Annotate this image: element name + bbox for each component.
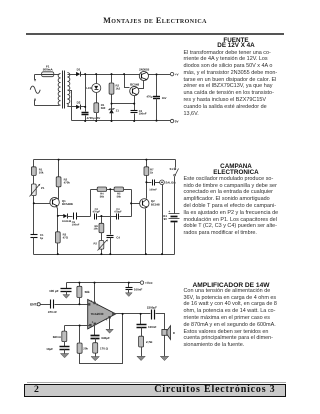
left rail bottom (33, 238, 35, 255)
wire C5 to double-T bottom (77, 216, 91, 218)
capacitor 100uF rail (66, 283, 68, 289)
double-T top wire right (124, 189, 132, 191)
double-T left vertical (90, 190, 92, 217)
capacitor C2 (131, 111, 138, 113)
wire C1 to op-amp (55, 304, 88, 306)
wire C3 to bottom rail (156, 99, 158, 121)
top rail (67, 282, 141, 284)
footer bar (24, 384, 286, 397)
svg-text:BC548B: BC548B (62, 202, 73, 206)
left rail top (33, 160, 35, 167)
svg-text:+Vcc: +Vcc (145, 281, 153, 285)
wire 170 ohm to ground (95, 354, 97, 357)
battery B1 9V (169, 214, 180, 222)
resistor R2 (109, 83, 114, 94)
capacitor 100nF decoupling (128, 283, 130, 288)
wire 10uF to ground (64, 350, 66, 354)
capacitor C3 (117, 214, 119, 220)
wire R6 to P2 (101, 233, 103, 241)
wire C4 to bottom rail (110, 238, 112, 255)
wire pin5 to rail (94, 283, 96, 303)
double-T right vertical (131, 190, 133, 217)
resistor R2 (56, 177, 61, 187)
junction dots schematic 1 (84, 73, 157, 122)
wire C7 to jack (155, 182, 160, 184)
wire D1 to C5 (68, 216, 73, 218)
double-T top wire middle (107, 189, 115, 191)
svg-text:D1: D1 (77, 67, 81, 71)
capacitor 640uF (91, 336, 100, 339)
svg-text:10μF: 10μF (46, 347, 53, 351)
zobel branch (140, 314, 142, 325)
wire secondary bottom tap (68, 106, 77, 108)
zener Z1 (109, 108, 115, 113)
wire Q2 emitter (145, 209, 147, 255)
footer shadow line (27, 382, 286, 383)
svg-text:10k: 10k (39, 170, 44, 174)
resistor 2.7 ohm (139, 336, 144, 347)
svg-text:470pF: 470pF (93, 211, 101, 214)
svg-text:10k: 10k (93, 228, 98, 231)
wire to Q2 base (132, 203, 140, 205)
wire Q2 collector from rail (125, 75, 130, 88)
wire input to C1 (41, 304, 51, 306)
svg-text:D2: D2 (77, 101, 81, 105)
left rail middle (33, 196, 35, 235)
resistor 680 ohm (64, 326, 66, 332)
ground pin4 (109, 318, 111, 330)
double-T bottom wire right (120, 216, 132, 218)
resistor R1 (31, 167, 36, 176)
capacitor C1 4700uF (82, 113, 89, 115)
text block 3 title (181, 282, 281, 289)
svg-text:TDA2030: TDA2030 (91, 312, 104, 316)
terminal 0V (170, 119, 173, 122)
capacitor C2 (95, 214, 97, 220)
svg-text:47Ω: 47Ω (63, 235, 69, 239)
transistor Q1 BC548B (50, 198, 59, 207)
svg-text:470pF: 470pF (114, 211, 122, 214)
text block 1 body (184, 50, 281, 118)
potentiometer P2 (98, 239, 109, 250)
svg-text:470k: 470k (64, 180, 71, 184)
wire to C7 (147, 182, 152, 184)
wire 680 to 10uF (64, 342, 66, 347)
svg-text:100nF: 100nF (148, 325, 157, 329)
svg-text:BC548: BC548 (151, 202, 160, 206)
output wire (116, 313, 151, 315)
svg-text:640μF: 640μF (101, 336, 110, 340)
wire zener junction to Q2 (112, 103, 135, 105)
transistor Q2 BC548 (140, 199, 149, 208)
wire R2 to zener (111, 95, 113, 109)
terminal +V (170, 72, 173, 75)
svg-text:9V: 9V (164, 217, 168, 221)
transformer secondary winding (67, 73, 69, 107)
svg-text:C4: C4 (116, 235, 120, 239)
wire LED column (96, 75, 98, 84)
svg-text:2N3055: 2N3055 (139, 67, 150, 71)
svg-text:100nF: 100nF (139, 113, 147, 116)
svg-text:680 Ω: 680 Ω (53, 335, 62, 339)
junction dots schematic 2 (33, 159, 163, 256)
wire secondary top tap (68, 74, 77, 76)
potentiometer P1 (30, 184, 41, 197)
text block 2 body (184, 176, 281, 237)
svg-text:100nF: 100nF (72, 224, 80, 227)
svg-text:1N4148: 1N4148 (62, 220, 72, 223)
diode D1 1N4148 (63, 214, 67, 219)
capacitor C7 (153, 180, 155, 186)
svg-text:P1: P1 (41, 186, 45, 190)
svg-text:S1: S1 (169, 167, 173, 171)
resistor 170 ohm (93, 343, 98, 353)
svg-text:16V: 16V (162, 97, 167, 100)
capacitor C1 (31, 235, 38, 238)
top rail (34, 159, 176, 161)
fuse F1 (42, 72, 54, 77)
text block 3 body (184, 288, 281, 349)
svg-text:1μ: 1μ (40, 236, 44, 240)
transformer T1 primary winding (58, 73, 60, 105)
svg-text:1k: 1k (150, 170, 154, 174)
wire 640uF branch (94, 325, 96, 336)
AC source input arrows (34, 75, 36, 106)
wire top rail left (81, 74, 140, 76)
wire fuse to transformer primary (54, 74, 60, 76)
svg-text:4: 4 (106, 318, 108, 321)
wire AC top to fuse (35, 74, 42, 76)
svg-text:BC548: BC548 (130, 82, 139, 86)
wire Q1 base (34, 203, 51, 205)
svg-text:56k: 56k (100, 195, 105, 198)
AC sine symbol (30, 86, 40, 93)
resistor R3 (55, 232, 60, 243)
resistor 56k (79, 283, 81, 287)
svg-text:ENT.: ENT. (30, 303, 37, 307)
wire R1 to P1 (33, 176, 35, 185)
capacitor 100nF zobel (137, 325, 147, 328)
diode D2 (76, 105, 80, 110)
svg-text:P2: P2 (93, 241, 97, 245)
wire R7 to C7 junction (146, 176, 148, 183)
resistor R5 (114, 187, 123, 191)
svg-text:Z1: Z1 (116, 109, 120, 113)
bottom rail (34, 254, 175, 256)
wire Q2 emitter to C2 (134, 96, 136, 111)
wire speaker to ground (164, 336, 166, 357)
wire D1 branch (58, 215, 64, 217)
header rule (26, 33, 284, 34)
wire 20k to inverting input (79, 326, 81, 343)
svg-text:20k: 20k (83, 346, 88, 350)
text block 2 title (181, 164, 291, 175)
wire AC bottom to primary (35, 105, 60, 107)
op-amp TDA2030 (88, 300, 116, 329)
wire R3 to bottom rail (57, 243, 59, 255)
capacitor C4 (107, 236, 114, 238)
bottom rail (72, 120, 171, 122)
wire jack to bottom rail (162, 185, 164, 255)
svg-text:56k: 56k (117, 195, 122, 198)
output jack SALIDA (160, 180, 165, 185)
wire LED to R1 (96, 93, 98, 103)
capacitor 2200uF (152, 310, 155, 320)
inverting input wire (65, 325, 91, 327)
wire R7 column (146, 160, 148, 167)
transistor Q2 BC548 (130, 87, 139, 96)
svg-text:470 nF: 470 nF (48, 310, 57, 314)
svg-text:R: R (173, 332, 175, 335)
svg-text:170 Ω: 170 Ω (100, 346, 109, 350)
wire to zobel resistor (141, 328, 143, 337)
svg-text:56k: 56k (85, 290, 90, 294)
middle branch C4 (110, 190, 112, 235)
wire rectifier join vertical (85, 75, 87, 112)
svg-text:1k2: 1k2 (116, 87, 121, 91)
diode D1 (76, 72, 80, 77)
wire C2 to bottom rail (134, 114, 136, 121)
capacitor C1 470nF (51, 300, 54, 309)
wire R2 column (58, 160, 60, 177)
resistor R1 (94, 103, 99, 113)
feedback wire from output (80, 314, 123, 364)
capacitor C3 output (153, 97, 160, 99)
wire R1 to bottom rail (96, 113, 98, 121)
resistor R6 (99, 223, 104, 232)
svg-text:470μ: 470μ (146, 96, 152, 99)
junction dots schematic 3 (78, 282, 141, 327)
wire P2 to bottom rail (101, 250, 103, 255)
svg-text:500mA: 500mA (43, 67, 54, 71)
ground below 100uF (66, 292, 68, 295)
wire Q1 emitter down (57, 207, 58, 232)
footer page number (34, 384, 39, 395)
wire R6 branch (101, 217, 103, 224)
text block 1 title (181, 38, 291, 49)
wire C1 to bottom rail (85, 116, 87, 121)
svg-text:+V: +V (175, 72, 179, 76)
wire output cap column (156, 75, 158, 97)
wire zobel to ground (141, 347, 143, 357)
svg-text:LED: LED (86, 86, 92, 90)
wire Q2 to Q1 base (139, 81, 144, 89)
footer book title (140, 384, 276, 395)
wire Q2 collector (146, 183, 148, 199)
double-T top wire left (91, 189, 98, 191)
header title (25, 16, 285, 25)
transformer core (62, 71, 64, 109)
resistor 20k feedback (77, 343, 82, 353)
svg-text:2200μF: 2200μF (147, 305, 157, 309)
wire R2 to Q1 collector (58, 187, 59, 199)
resistor R4 (97, 187, 106, 191)
svg-text:2,7Ω: 2,7Ω (146, 340, 153, 344)
wire R2 column top (111, 75, 113, 83)
svg-text:100 μF: 100 μF (49, 289, 59, 293)
resistor R7 (144, 167, 149, 176)
wire secondary center tap (70, 91, 72, 121)
wire 640uF to 170 ohm (95, 339, 97, 343)
speaker (162, 326, 171, 340)
wire top rail right (output) (149, 74, 171, 76)
wire zener to bottom rail (111, 113, 113, 121)
transistor Q1 2N3055 (139, 71, 148, 80)
capacitor C5 (74, 213, 77, 220)
wire D2 to junction (81, 106, 86, 108)
switch S1 (174, 160, 179, 214)
capacitor 10uF (60, 347, 70, 350)
wire battery to bottom rail (174, 223, 176, 255)
svg-text:4700μ 25V: 4700μ 25V (87, 116, 101, 120)
svg-text:100nF: 100nF (149, 188, 157, 191)
terminal +Vcc (140, 281, 143, 284)
svg-text:100nF: 100nF (134, 287, 143, 291)
svg-text:0V: 0V (175, 119, 179, 123)
LED (92, 84, 101, 93)
svg-text:560: 560 (101, 106, 106, 110)
wire cap to speaker (156, 314, 165, 330)
svg-text:+: + (168, 210, 170, 214)
double-T bottom wire middle (98, 216, 117, 218)
